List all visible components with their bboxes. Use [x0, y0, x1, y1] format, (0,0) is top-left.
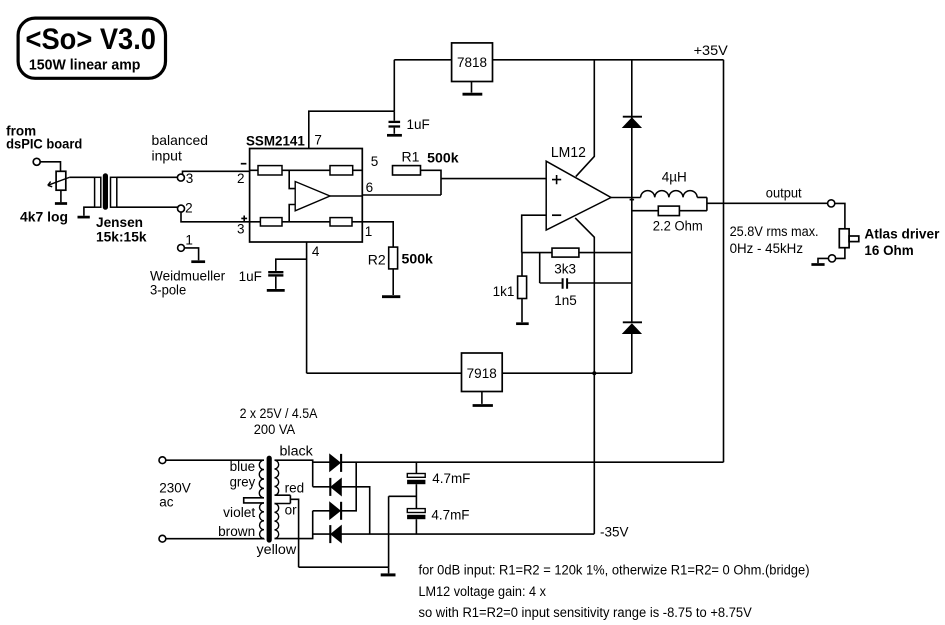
op-amp U2 LM12: [546, 145, 611, 230]
svg-text:500k: 500k: [402, 251, 434, 266]
secondary winding upper: [275, 460, 279, 495]
internal op-amp triangle: [295, 182, 330, 211]
wire 7918 output to pin4: [307, 372, 462, 374]
resistor R1 500k: [362, 148, 546, 195]
output terminal circle: [828, 200, 835, 207]
wire primary bottom to ground: [84, 207, 95, 216]
connector input terminal: [33, 158, 40, 165]
svg-text:2: 2: [185, 201, 193, 216]
wire to D3: [313, 510, 330, 512]
diode D2 flyback to -35V: [623, 322, 642, 373]
wire output run: [707, 202, 828, 204]
wire yellow secondary to bridge: [275, 511, 313, 539]
svg-text:6: 6: [366, 180, 374, 195]
op-amp U1 SSM2141: [246, 134, 362, 242]
ground: [191, 260, 205, 263]
svg-text:blue: blue: [230, 459, 256, 474]
ground under 7918: [481, 392, 483, 404]
svg-text:4µH: 4µH: [662, 169, 687, 184]
svg-text:balanced: balanced: [152, 132, 209, 148]
svg-text:+35V: +35V: [694, 43, 728, 58]
wire LM12 inverting input: [522, 215, 547, 252]
label output specs: [730, 224, 819, 256]
internal tap to inverting input: [289, 170, 295, 188]
svg-text:1uF: 1uF: [239, 269, 262, 284]
internal resistor bottom-right: [330, 218, 352, 226]
svg-text:for 0dB input: R1=R2 = 120k 1%: for 0dB input: R1=R2 = 120k 1%, otherwiz…: [419, 563, 810, 578]
mains terminal bottom: [159, 535, 166, 542]
regulator 7918: [462, 353, 503, 392]
svg-text:R2: R2: [368, 252, 386, 268]
svg-text:output: output: [766, 186, 802, 201]
internal tap to non-inverting input: [289, 205, 295, 222]
svg-text:Atlas driver: Atlas driver: [864, 226, 940, 241]
svg-text:red: red: [285, 481, 305, 496]
speaker Atlas driver: [839, 226, 940, 258]
svg-text:1uF: 1uF: [407, 117, 430, 132]
mains terminal top: [159, 457, 166, 464]
svg-text:LM12 voltage gain: 4 x: LM12 voltage gain: 4 x: [419, 584, 547, 599]
pin 2 markings: [241, 163, 247, 165]
ground under 7818: [471, 82, 473, 93]
wire speaker return: [836, 248, 845, 259]
svg-text:4.7mF: 4.7mF: [431, 508, 469, 523]
connector pin 3 circle: [177, 174, 184, 181]
wire 7918 input from -35V: [502, 372, 632, 374]
wire: [40, 162, 60, 172]
svg-text:500k: 500k: [427, 151, 459, 166]
svg-text:brown: brown: [218, 524, 255, 539]
secondary winding lower: [275, 504, 279, 539]
svg-text:16 Ohm: 16 Ohm: [864, 243, 913, 258]
svg-text:Jensen: Jensen: [96, 215, 143, 230]
svg-text:7818: 7818: [457, 55, 487, 70]
svg-text:4.7mF: 4.7mF: [432, 471, 470, 486]
+35V top rail: [493, 60, 724, 462]
internal resistor bottom-left: [260, 218, 282, 226]
svg-text:3: 3: [237, 222, 245, 237]
svg-text:7918: 7918: [467, 366, 497, 381]
svg-text:1: 1: [185, 232, 193, 247]
diode D1 flyback to +35V: [623, 60, 642, 323]
svg-text:2.2 Ohm: 2.2 Ohm: [653, 218, 703, 233]
svg-text:yellow: yellow: [257, 542, 297, 557]
resistor 1k1: [493, 253, 527, 323]
capacitor 1uF at pin7: [389, 111, 430, 134]
label: from dsPIC board: [6, 124, 82, 152]
svg-text:SSM2141: SSM2141: [246, 134, 305, 149]
internal resistor top-right: [330, 166, 353, 175]
wire conn3 to SSM pin2: [183, 171, 250, 174]
internal resistor top-left: [258, 166, 282, 175]
wire conn1 to ground: [184, 248, 198, 260]
potentiometer 4k7 log: [20, 171, 69, 224]
capacitor C1 4.7mF: [407, 462, 470, 508]
ground: [78, 216, 90, 219]
junction: [592, 371, 596, 375]
svg-text:grey: grey: [230, 474, 256, 489]
diode D5 bridge: [330, 462, 357, 520]
wire black secondary to bridge: [275, 460, 313, 487]
svg-text:1: 1: [365, 224, 373, 239]
diode D6 bridge: [330, 525, 341, 543]
svg-text:LM12: LM12: [551, 145, 586, 161]
pin 7 wire: [309, 111, 395, 148]
svg-text:R1: R1: [402, 148, 420, 164]
svg-text:violet: violet: [223, 505, 255, 520]
notes text: [419, 563, 810, 620]
wire winding labels: [218, 444, 313, 558]
wire cap midpoint to ground: [389, 496, 417, 567]
wire LM12 V- supply to -35V: [575, 218, 594, 534]
svg-text:input: input: [152, 148, 182, 164]
wire inductor end: [697, 197, 707, 210]
inductor L1 4uH: [641, 169, 698, 197]
-35V rail from bridge: [341, 533, 594, 535]
svg-text:150W linear amp: 150W linear amp: [29, 57, 141, 73]
svg-text:7: 7: [314, 132, 322, 147]
diode D4 bridge: [330, 478, 369, 534]
capacitor C2 4.7mF: [407, 508, 469, 535]
wire pot bottom: [60, 190, 62, 202]
svg-text:1k1: 1k1: [493, 284, 515, 299]
ground under R2: [382, 295, 400, 298]
return terminal circle: [828, 255, 835, 262]
wire to speaker: [835, 203, 845, 228]
svg-text:3: 3: [186, 171, 194, 186]
wire secondary bottom to connector 2: [117, 206, 178, 208]
internal wire top: [250, 169, 363, 171]
ground under pin4 1uF: [267, 289, 285, 292]
capacitor 1uF at pin4: [239, 259, 307, 289]
svg-text:5: 5: [371, 154, 379, 169]
svg-text:<So> V3.0: <So> V3.0: [26, 23, 157, 56]
svg-text:0Hz - 45kHz: 0Hz - 45kHz: [730, 241, 804, 256]
svg-text:dsPIC board: dsPIC board: [6, 136, 82, 151]
core: [267, 456, 272, 543]
resistor R2 500k: [362, 222, 433, 295]
wire secondary top to connector 3: [117, 176, 178, 178]
svg-text:25.8V rms max.: 25.8V rms max.: [730, 224, 819, 239]
regulator 7818: [452, 43, 493, 82]
junction: [630, 199, 635, 201]
connector pin 1 circle: [178, 245, 185, 252]
ground under 1uF: [387, 134, 402, 137]
svg-text:3-pole: 3-pole: [150, 281, 186, 297]
wire to D1: [313, 461, 330, 463]
resistor 3k3 feedback: [522, 248, 632, 277]
wire wiper to transformer: [69, 176, 94, 178]
wire mains bottom: [166, 538, 264, 540]
svg-text:so with R1=R2=0 input sensitiv: so with R1=R2=0 input sensitivity range …: [419, 605, 752, 620]
wire 7818 output to pin7 node: [394, 60, 451, 111]
svg-text:4k7 log: 4k7 log: [20, 210, 68, 225]
ground power supply: [381, 573, 396, 576]
wire to D4: [313, 533, 331, 535]
pin 4 wire: [306, 242, 308, 373]
svg-text:1n5: 1n5: [554, 293, 577, 308]
svg-text:black: black: [280, 444, 314, 459]
primary winding upper: [259, 460, 264, 498]
svg-text:2: 2: [237, 171, 245, 186]
diode D3 bridge: [330, 454, 341, 472]
wire center tap red/or: [275, 495, 299, 567]
primary winding lower: [260, 503, 264, 539]
svg-text:200 VA: 200 VA: [254, 422, 296, 437]
svg-text:ac: ac: [159, 495, 174, 510]
svg-text:2 x 25V / 4.5A: 2 x 25V / 4.5A: [240, 406, 318, 421]
connector pin 2 circle: [178, 205, 185, 212]
power transformer T2: [240, 406, 318, 437]
label: balanced input: [152, 132, 209, 164]
ground: [811, 263, 824, 266]
resistor 2.2 Ohm: [632, 206, 707, 233]
svg-text:3k3: 3k3: [554, 262, 576, 277]
transformer T1 Jensen 15k:15k: [95, 173, 147, 245]
svg-text:-35V: -35V: [600, 525, 629, 540]
svg-text:230V: 230V: [159, 481, 191, 496]
title block: [18, 18, 165, 78]
series link: [244, 498, 264, 503]
pin 3 markings: [241, 216, 247, 222]
internal wire bottom: [250, 221, 363, 223]
svg-text:4: 4: [312, 244, 320, 259]
internal apex wire pin6: [330, 195, 362, 197]
wire center tap ground run: [299, 567, 389, 573]
+35V rail from bridge: [341, 461, 723, 463]
capacitor 1n5: [540, 253, 632, 309]
wire LM12 V+ supply: [576, 60, 595, 177]
ground under 1k1: [516, 322, 529, 325]
wire to ground: [818, 258, 828, 263]
wire LM12 output: [611, 197, 641, 199]
svg-text:15k:15k: 15k:15k: [96, 230, 147, 245]
wire mains top: [166, 459, 264, 461]
label Weidmueller 3-pole: [150, 268, 226, 298]
ground: [55, 202, 67, 205]
wire to D2: [313, 486, 331, 488]
wire conn2 to SSM pin3: [181, 212, 250, 222]
svg-text:or: or: [285, 502, 298, 517]
